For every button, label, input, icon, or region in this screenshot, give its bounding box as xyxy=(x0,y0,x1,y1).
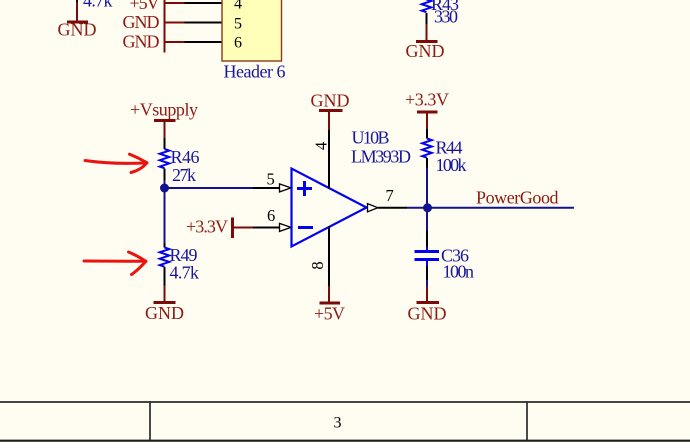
title block divider right xyxy=(526,402,528,440)
svg-text:6: 6 xyxy=(267,206,275,225)
pin of R46 (top) xyxy=(164,138,166,149)
wire junction to op-amp pin5 xyxy=(165,187,254,189)
svg-text:5: 5 xyxy=(234,16,242,33)
annotation red arrow 1 (points at R46) xyxy=(85,154,147,172)
wire pin 7 to junction xyxy=(407,207,428,209)
pin 5 of U10B xyxy=(253,187,280,189)
svg-text:8: 8 xyxy=(308,261,327,269)
resistor R46 xyxy=(160,149,170,168)
pin 5 arrowhead xyxy=(280,184,292,192)
wire junction to right (PowerGood net) xyxy=(428,207,575,209)
ground bar (top-left) xyxy=(67,21,88,24)
pin of C36 (top) xyxy=(426,231,428,248)
svg-text:Header 6: Header 6 xyxy=(224,62,286,82)
pin of R44 (top) xyxy=(426,129,428,139)
svg-text:GND: GND xyxy=(58,20,97,40)
wire pin 8 to +5V xyxy=(328,286,330,302)
wire R44 to junction xyxy=(426,168,428,208)
svg-text:330: 330 xyxy=(434,7,458,27)
wire GND power (C36) xyxy=(426,287,428,302)
svg-text:7: 7 xyxy=(386,186,394,205)
svg-text:100k: 100k xyxy=(436,155,467,175)
power bar +3.3V (R44) xyxy=(417,111,438,114)
title block bottom rule (sheet edge) xyxy=(0,440,690,442)
svg-text:GND: GND xyxy=(123,12,160,32)
wire R46 to junction xyxy=(164,180,166,188)
svg-text:PowerGood: PowerGood xyxy=(476,188,559,208)
svg-text:GND: GND xyxy=(408,304,447,324)
pin of R46 (bottom) xyxy=(164,169,166,181)
power bar +Vsupply xyxy=(154,119,176,122)
svg-text:3: 3 xyxy=(334,415,342,432)
wire to header pin 6 xyxy=(165,41,185,43)
resistor R49 xyxy=(160,248,170,267)
svg-text:5: 5 xyxy=(267,170,275,189)
svg-text:LM393D: LM393D xyxy=(351,147,411,167)
svg-text:+5V: +5V xyxy=(314,304,345,324)
junction node at PowerGood xyxy=(423,203,432,212)
annotation red arrow 2 (points at R49) xyxy=(84,252,146,275)
wire junction to R49 xyxy=(164,188,166,243)
wire GND power (R43) xyxy=(426,24,428,41)
svg-text:GND: GND xyxy=(123,32,160,52)
capacitor C36 xyxy=(415,247,440,266)
pin 7 arrowhead (output) xyxy=(368,204,378,212)
wire +3.3V to pin 6 xyxy=(234,227,253,229)
junction node divider xyxy=(160,184,169,193)
pin of C36 (bottom) xyxy=(426,266,428,280)
svg-text:GND: GND xyxy=(311,91,350,111)
wire R49 to GND xyxy=(164,286,166,303)
pin of R49 (top) xyxy=(164,243,166,248)
ground bar (C36) xyxy=(417,301,440,304)
resistor R44 xyxy=(422,139,432,158)
svg-text:+Vsupply: +Vsupply xyxy=(130,100,198,120)
svg-text:R46: R46 xyxy=(171,147,200,167)
svg-text:100n: 100n xyxy=(443,262,475,282)
power bar +5V xyxy=(320,302,341,305)
pin of R44 (bottom) xyxy=(426,158,428,168)
ground bar (R49) xyxy=(154,301,176,304)
svg-text:6: 6 xyxy=(234,35,242,52)
title block divider left xyxy=(149,402,151,440)
pin of R49 (bottom) xyxy=(164,267,166,286)
svg-text:4: 4 xyxy=(234,0,242,13)
pin 6 arrowhead xyxy=(280,223,292,231)
wire to header pin 4 xyxy=(165,2,185,4)
op-amp plus input marker xyxy=(297,181,312,196)
svg-text:4: 4 xyxy=(312,142,331,150)
op-amp U10B triangle xyxy=(292,169,367,247)
svg-text:4.7k: 4.7k xyxy=(83,0,113,11)
svg-text:4.7k: 4.7k xyxy=(170,263,200,283)
svg-text:GND: GND xyxy=(406,41,445,61)
ground bar (R43) xyxy=(416,40,438,43)
title block top rule xyxy=(0,401,690,403)
wire C36 to GND xyxy=(426,280,428,287)
svg-text:GND: GND xyxy=(145,303,184,323)
connector J? header body xyxy=(222,0,282,61)
wire +Vsupply to R46 xyxy=(164,122,166,138)
pin 4 of U10B xyxy=(328,130,330,189)
svg-text:+3.3V: +3.3V xyxy=(405,90,449,110)
power port bar +3.3V xyxy=(231,218,234,239)
wire +3.3V to R44 xyxy=(426,114,428,130)
svg-text:27k: 27k xyxy=(172,165,196,185)
svg-text:+3.3V: +3.3V xyxy=(186,217,228,237)
wire to header pin 5 xyxy=(165,22,185,24)
wire vertical bus stub at header xyxy=(164,0,166,53)
wire (pin of 4.7k resistor, top-left) xyxy=(76,0,78,2)
pin of R43 xyxy=(426,13,428,24)
pin 7 of U10B xyxy=(378,207,407,209)
wire GND power (top-left) xyxy=(76,2,78,21)
pin 6 of U10B xyxy=(253,227,280,229)
wire GND to pin 4 xyxy=(328,112,330,130)
svg-text:U10B: U10B xyxy=(352,128,390,148)
power bar GND (pin 4) xyxy=(319,109,343,112)
op-amp minus input marker xyxy=(298,226,313,229)
wire junction to C36 xyxy=(426,208,428,231)
resistor R43 (top right, cut off) xyxy=(422,0,432,12)
pin 8 of U10B xyxy=(328,227,330,287)
